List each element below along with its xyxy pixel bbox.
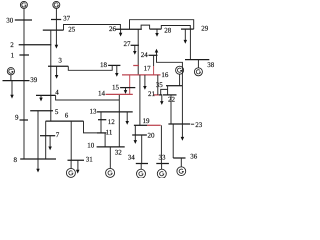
wire 26-27 (137, 29, 139, 45)
svg-text:6: 6 (65, 111, 69, 119)
svg-text:16: 16 (161, 71, 169, 79)
svg-text:7: 7 (56, 131, 60, 139)
wire 28-29 (161, 26, 190, 30)
svg-text:8: 8 (14, 156, 18, 164)
bus 31 (68, 159, 85, 161)
bus 30 (15, 19, 32, 21)
svg-text:28: 28 (164, 26, 172, 34)
wire 26-28 (141, 25, 150, 29)
bus 37 (51, 19, 61, 21)
generator G33 (157, 164, 166, 179)
wire 5-8 (37, 111, 39, 159)
bus 39 (3, 80, 30, 82)
wire 14-15 red (129, 75, 131, 95)
wire 37-25 (55, 20, 57, 31)
load 18 (115, 65, 119, 76)
svg-text:12: 12 (108, 118, 116, 126)
load 7 (48, 136, 52, 151)
wire 21-22 bridge (161, 89, 168, 95)
svg-text:9: 9 (15, 114, 19, 122)
svg-text:10: 10 (87, 142, 95, 150)
wire 10-32 (109, 147, 111, 169)
bus 21 (159, 94, 162, 96)
svg-text:39: 39 (30, 76, 38, 84)
wire 19-20 (134, 125, 136, 135)
svg-text:5: 5 (55, 108, 59, 116)
svg-text:27: 27 (124, 40, 132, 48)
bus 16 (red) (122, 74, 161, 76)
load 25 (55, 30, 59, 48)
svg-text:4: 4 (55, 89, 59, 97)
wire 6-7-8 (45, 121, 47, 159)
bus 24 (149, 54, 158, 56)
wire 6-31 (70, 121, 72, 160)
svg-text:19: 19 (143, 117, 151, 125)
svg-text:25: 25 (68, 26, 76, 34)
wire 16-21 (157, 75, 159, 95)
load 26 (119, 29, 123, 36)
bus 29 (181, 28, 194, 30)
wire 4-14 (56, 95, 120, 100)
svg-text:24: 24 (141, 51, 149, 59)
wire 16-24 (153, 55, 155, 66)
wire 6-11 (84, 121, 98, 133)
bus 23 label lead dash (191, 123, 194, 125)
svg-text:35: 35 (156, 81, 164, 89)
svg-text:33: 33 (159, 154, 167, 162)
bus 38 (185, 59, 209, 61)
generator G39 (7, 68, 14, 81)
svg-text:13: 13 (90, 107, 98, 115)
svg-text:29: 29 (201, 24, 209, 32)
wire 2-25-3-4-5-6 spine (50, 30, 52, 121)
wire 22-23 (170, 95, 172, 124)
bus 9 (20, 119, 29, 121)
bus 18 (108, 64, 120, 66)
wire left spine 30-2-1-39-9-8 (23, 20, 25, 159)
bus 33 (156, 163, 169, 165)
load 16 (143, 75, 147, 90)
generator G30 (20, 1, 27, 20)
wire 16-24 red part (153, 66, 155, 75)
generator G32 (106, 168, 115, 177)
bus 28 (150, 28, 162, 30)
bus 22 (163, 94, 177, 96)
generator G31 (66, 160, 75, 177)
load 39 (10, 81, 14, 99)
svg-text:31: 31 (86, 156, 94, 164)
bus 27 (131, 44, 139, 46)
load 20 (134, 135, 138, 144)
bus 5 (30, 110, 53, 112)
generator G37 (53, 1, 60, 19)
load 29 (184, 29, 188, 44)
wire 20-34 (141, 135, 143, 164)
load 24 up arrow (155, 49, 159, 56)
bus 20 (132, 134, 147, 136)
load 3 (55, 66, 59, 79)
bus 13 (97, 111, 133, 113)
svg-text:30: 30 (6, 16, 14, 24)
load 28 (155, 29, 159, 37)
bus 19 (134, 124, 147, 126)
svg-text:2: 2 (10, 41, 14, 49)
wire 27-17-16 (137, 45, 139, 75)
wire 23-36 (172, 124, 174, 158)
generator G34 (137, 164, 146, 179)
wire 29-38 (189, 29, 191, 59)
svg-text:17: 17 (144, 65, 152, 73)
load 21 (160, 95, 164, 105)
bus 12 (98, 119, 106, 121)
generator G36 (177, 158, 186, 176)
svg-text:14: 14 (98, 90, 106, 98)
bus 7 (40, 135, 55, 137)
svg-text:21: 21 (148, 90, 156, 98)
bus 17 (red) (133, 65, 139, 67)
wire 19-33 (160, 125, 162, 163)
svg-text:38: 38 (207, 61, 215, 69)
wire 26-29 (130, 20, 194, 30)
bus 1 (19, 54, 29, 56)
load 23 (181, 124, 185, 141)
wire 11-10 (104, 133, 106, 147)
svg-text:34: 34 (128, 153, 136, 161)
wire 14-13-10 (118, 94, 120, 146)
wire 24-23 (157, 55, 183, 124)
bus 11 (97, 132, 107, 134)
load 4 (39, 95, 43, 101)
generator G38 (194, 60, 202, 76)
bus 35 (166, 85, 182, 87)
load 13 (125, 112, 129, 125)
svg-text:15: 15 (112, 84, 120, 92)
bus 4 (36, 94, 56, 96)
generator G35 (176, 66, 184, 86)
bus 15 (120, 87, 135, 89)
svg-text:18: 18 (100, 61, 108, 69)
wire 35-22 (167, 86, 169, 95)
bus 14 (red) (106, 93, 133, 95)
svg-text:11: 11 (106, 128, 113, 136)
svg-text:22: 22 (168, 95, 176, 103)
bus 3 (48, 65, 68, 67)
bus 21 red part (154, 94, 159, 96)
load 27 (133, 45, 137, 55)
wire 13-12-11 (100, 112, 102, 133)
bus 10 (97, 146, 125, 148)
bus 26 (116, 28, 142, 30)
svg-text:20: 20 (148, 131, 156, 139)
svg-text:23: 23 (195, 121, 203, 129)
svg-text:37: 37 (63, 15, 71, 23)
bus 2 (19, 44, 52, 46)
wire 25-26 (64, 25, 121, 31)
bus 23 (168, 123, 190, 125)
bus 36 (173, 157, 185, 159)
load 31 (76, 160, 80, 173)
wire 3-18 (68, 65, 112, 70)
wire 16-19 (139, 75, 141, 125)
load 15 (124, 88, 128, 94)
load 8 (36, 159, 40, 173)
bus 19 red part (147, 124, 161, 126)
bus 25 (43, 29, 64, 31)
svg-text:32: 32 (115, 149, 123, 157)
bus 6 (46, 120, 84, 122)
svg-text:26: 26 (109, 25, 117, 33)
svg-text:36: 36 (190, 153, 198, 161)
svg-text:3: 3 (58, 57, 62, 65)
svg-text:1: 1 (11, 51, 15, 59)
bus 34 (136, 163, 148, 165)
bus 8 (20, 158, 56, 160)
